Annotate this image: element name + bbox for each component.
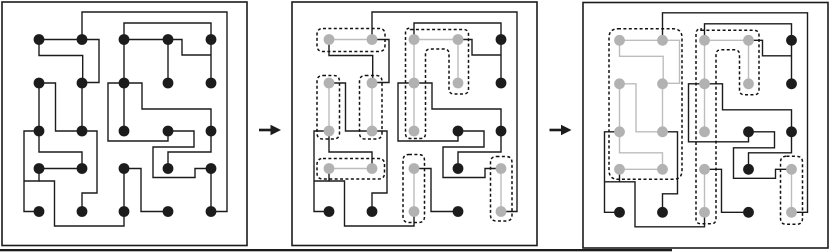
node n11 (panel 2) (324, 34, 335, 45)
wire W22a net n31-n51 left trunk (panel 1) (24, 131, 39, 212)
node n13 (panel 2) (409, 34, 420, 45)
node n43 (panel 2) (409, 163, 420, 174)
cluster box C1 {n11,n12} (panel 2) (317, 29, 385, 52)
wire W3 net n13-n15 top (panel 3) (705, 24, 792, 41)
node n22 (panel 1) (77, 78, 88, 89)
node n51 (panel 2) (324, 206, 335, 217)
wire W13 n22-n32 (panel 3, clustered) (662, 84, 664, 132)
wire W22c net n41-n53 branch (panel 2) (329, 181, 414, 226)
wire W16 n23-n33 (panel 1) (123, 83, 125, 131)
wire W18 net n32-n52 (panel 1) (82, 131, 97, 212)
node n34 (panel 2) (453, 126, 464, 137)
node n25 (panel 3) (786, 78, 797, 89)
node n23 (panel 1) (119, 78, 130, 89)
panel 3 frame (583, 3, 828, 249)
panel 1 frame (2, 2, 247, 246)
node n11 (panel 3) (614, 35, 625, 46)
node n43 (panel 3) (699, 164, 710, 175)
node n23 (panel 2) (409, 78, 420, 89)
node n44 (panel 3) (743, 164, 754, 175)
wire W20 net n35-n44 (panel 3) (749, 132, 792, 170)
wire W6 net n11-n22 (panel 3, clustered) (620, 40, 664, 84)
wire W15 net n23-n35 (panel 3) (705, 84, 792, 132)
wire W1 net n12-n55 top/right trunk (panel 2) (372, 12, 517, 212)
panel 2 frame (292, 2, 537, 246)
node n42 (panel 3) (657, 164, 668, 175)
wire W1 net n12-n55 top/right trunk (panel 1) (82, 12, 227, 212)
node n33 (panel 2) (409, 126, 420, 137)
node n45 (panel 1) (206, 163, 217, 174)
cluster box C7 {n45,n55} (panel 2) (491, 157, 513, 222)
wire W22a net n31-n51 left trunk (panel 2) (314, 131, 329, 212)
node n35 (panel 2) (496, 126, 507, 137)
arrow 2 (panel2 to panel3) (550, 125, 572, 136)
wire W2 n11-n12 (panel 2, clustered) (329, 39, 372, 41)
node n42 (panel 1) (77, 163, 88, 174)
wire W19 net n34-n45 (panel 3) (734, 132, 792, 179)
node n55 (panel 3) (786, 207, 797, 218)
node n34 (panel 3) (743, 126, 754, 137)
node n13 (panel 1) (119, 34, 130, 45)
wire W26 n45-n55 (panel 1) (210, 169, 212, 212)
node n45 (panel 2) (496, 163, 507, 174)
cluster box C6 {n43,n53} (panel 2) (403, 155, 425, 223)
node n35 (panel 1) (206, 126, 217, 137)
node n22 (panel 3) (657, 78, 668, 89)
node n21 (panel 3) (614, 78, 625, 89)
wire W13 n22-n32 (panel 1) (81, 83, 83, 131)
wire W12 n21-n31 (panel 2, clustered) (328, 83, 330, 131)
node n32 (panel 2) (367, 126, 378, 137)
cluster box C5 {n41,n42} (panel 2) (317, 159, 385, 180)
wire W22b net n41 tjoin (panel 3) (605, 169, 620, 182)
node n52 (panel 1) (77, 206, 88, 217)
wire W22a net n31-n51 left trunk (panel 3) (605, 132, 620, 213)
wire W25 net n43-n54 (panel 1) (124, 169, 168, 212)
wire W21 n41-n42 (panel 2, clustered) (329, 168, 372, 170)
node n44 (panel 1) (163, 163, 174, 174)
wire W22c net n41-n53 branch (panel 3) (620, 182, 705, 227)
wire W20 net n35-n44 (panel 2) (458, 131, 501, 169)
wire W6 net n11-n22 (panel 1) (39, 40, 83, 84)
wire W22b net n41 tjoin (panel 2) (314, 169, 329, 182)
node n15 (panel 2) (496, 34, 507, 45)
cluster box C2 {n21,n31} (panel 2) (317, 76, 340, 140)
node n21 (panel 1) (34, 78, 45, 89)
node n15 (panel 3) (786, 35, 797, 46)
wire W2 n11-n12 (panel 3, clustered) (620, 39, 663, 41)
wire W13 n22-n32 (panel 2, clustered) (371, 83, 373, 131)
node n52 (panel 3) (657, 207, 668, 218)
node n14 (panel 1) (163, 34, 174, 45)
wire W16 n23-n33 (panel 2, clustered) (413, 83, 415, 131)
wire W22c net n41-n53 branch (panel 1) (39, 181, 124, 226)
node n55 (panel 1) (206, 206, 217, 217)
node n52 (panel 2) (367, 206, 378, 217)
node n41 (panel 2) (324, 163, 335, 174)
wire W26 n45-n55 (panel 2, clustered) (500, 169, 502, 212)
wire W11 net n21-n32 (panel 1) (39, 83, 77, 131)
wire W20 net n35-n44 (panel 1) (168, 131, 211, 169)
wire W26 n45-n55 (panel 3, clustered) (791, 169, 793, 212)
arrow 1 (panel1 to panel2) (259, 125, 281, 136)
node n54 (panel 1) (163, 206, 174, 217)
node n22 (panel 2) (367, 78, 378, 89)
node n33 (panel 1) (119, 126, 130, 137)
bottom rule line (0, 249, 672, 251)
node n14 (panel 2) (453, 34, 464, 45)
wire W3 net n13-n15 top (panel 1) (124, 23, 211, 40)
wire W10 n14-n24 (panel 3, clustered) (748, 40, 750, 84)
wire W14 net n23-n34 (panel 2) (398, 83, 458, 141)
cluster box C4 {n13,n14,n23,n24,n33} (panel 2) (406, 28, 469, 139)
wire W24 n43-n53 (panel 2, clustered) (413, 169, 415, 212)
wire W10 n14-n24 (panel 2, clustered) (457, 40, 459, 84)
node n31 (panel 2) (324, 126, 335, 137)
wire W7 net n12-n22 (panel 2) (372, 40, 389, 83)
wire W8 net n14-n15col (panel 2) (458, 40, 501, 56)
node n55 (panel 2) (496, 206, 507, 217)
cluster box C {n45,n55} (panel 3) (781, 156, 803, 224)
node n34 (panel 1) (163, 126, 174, 137)
wire W11 net n21-n32 (panel 3, clustered) (620, 84, 658, 132)
node n44 (panel 2) (453, 163, 464, 174)
wire W6 net n11-n22 (panel 2) (329, 40, 373, 84)
node n54 (panel 3) (743, 207, 754, 218)
node n51 (panel 1) (34, 206, 45, 217)
wire W14 net n23-n34 (panel 1) (108, 83, 168, 141)
node n11 (panel 1) (34, 34, 45, 45)
wire W15 net n23-n35 (panel 1) (124, 83, 211, 131)
wire W24 n43-n53 (panel 1) (123, 169, 125, 212)
wire W3 net n13-n15 top (panel 2) (414, 23, 501, 40)
node n43 (panel 1) (119, 163, 130, 174)
node n31 (panel 1) (34, 126, 45, 137)
wire W9 n15-n25 (panel 3) (791, 40, 793, 84)
node n13 (panel 3) (699, 35, 710, 46)
node n42 (panel 2) (367, 163, 378, 174)
wire W4 n13-n14 (panel 2, clustered) (414, 39, 458, 41)
cluster box C3 {n22,n32} (panel 2) (360, 76, 383, 140)
wire W11 net n21-n32 (panel 2) (329, 83, 367, 131)
wire W7 net n12-n22 (panel 1) (82, 40, 99, 83)
wire W8 net n14-n15col (panel 1) (168, 40, 211, 56)
wire W19 net n34-n45 (panel 2) (443, 131, 501, 178)
node n24 (panel 2) (453, 78, 464, 89)
wire W7 net n12-n22 (panel 3, clustered) (663, 40, 680, 83)
wire W9 n15-n25 (panel 2) (500, 40, 502, 84)
wire W21 n41-n42 (panel 1) (39, 168, 82, 170)
wire W18 net n32-n52 (panel 2) (372, 131, 387, 212)
node n53 (panel 3) (699, 207, 710, 218)
node n12 (panel 2) (367, 34, 378, 45)
wire W8 net n14-n15col (panel 3) (749, 40, 792, 56)
cluster box B {n13,n14,n23,n24,n33,n43,n53} (panel 3) (696, 29, 759, 224)
node n12 (panel 3) (657, 35, 668, 46)
node n54 (panel 2) (453, 206, 464, 217)
node n24 (panel 3) (743, 78, 754, 89)
wire W25 net n43-n54 (panel 2) (414, 169, 458, 212)
wire W5 n13-n23 (panel 1) (123, 40, 125, 84)
node n15 (panel 1) (206, 34, 217, 45)
wire W17 net n31-n42 (panel 3, clustered) (620, 132, 663, 170)
wire W4 n13-n14 (panel 1) (124, 39, 168, 41)
wire W9 n15-n25 (panel 1) (210, 40, 212, 84)
wire W10 n14-n24 (panel 1) (167, 40, 169, 84)
node n41 (panel 3) (614, 164, 625, 175)
node n25 (panel 1) (206, 78, 217, 89)
cluster box A {n11,n12,n21,n22,n31,n32,n41,n42} (panel 3) (609, 29, 682, 180)
node n35 (panel 3) (786, 126, 797, 137)
wire W4 n13-n14 (panel 3, clustered) (705, 39, 749, 41)
wire W22b net n41 tjoin (panel 1) (24, 169, 39, 182)
node n25 (panel 2) (496, 78, 507, 89)
wire W5 n13-n23 (panel 2, clustered) (413, 40, 415, 84)
wire W1 net n12-n55 top/right trunk (panel 3) (663, 13, 808, 213)
wire W2 n11-n12 (panel 1) (39, 39, 82, 41)
wire W24 n43-n53 (panel 3, clustered) (704, 169, 706, 212)
wire W16 n23-n33 (panel 3, clustered) (704, 84, 706, 132)
node n32 (panel 3) (657, 126, 668, 137)
wire W18 net n32-n52 (panel 3) (663, 132, 678, 213)
node n51 (panel 3) (614, 207, 625, 218)
node n12 (panel 1) (77, 34, 88, 45)
node n41 (panel 1) (34, 163, 45, 174)
node n53 (panel 1) (119, 206, 130, 217)
wire W19 net n34-n45 (panel 1) (153, 131, 211, 178)
wire W15 net n23-n35 (panel 2) (414, 83, 501, 131)
wire W21 n41-n42 (panel 3, clustered) (620, 168, 663, 170)
wire W5 n13-n23 (panel 3, clustered) (704, 40, 706, 84)
wire W17 net n31-n42 (panel 1) (39, 131, 82, 169)
node n33 (panel 3) (699, 126, 710, 137)
node n14 (panel 3) (743, 35, 754, 46)
node n53 (panel 2) (409, 206, 420, 217)
wire W12 n21-n31 (panel 3, clustered) (619, 84, 621, 132)
node n21 (panel 2) (324, 78, 335, 89)
wire W14 net n23-n34 (panel 3) (689, 84, 749, 142)
node n23 (panel 3) (699, 78, 710, 89)
node n45 (panel 3) (786, 164, 797, 175)
node n24 (panel 1) (163, 78, 174, 89)
wire W25 net n43-n54 (panel 3) (705, 169, 749, 212)
wire W17 net n31-n42 (panel 2) (329, 131, 372, 169)
node n32 (panel 1) (77, 126, 88, 137)
wire W12 n21-n31 (panel 1) (38, 83, 40, 131)
node n31 (panel 3) (614, 126, 625, 137)
